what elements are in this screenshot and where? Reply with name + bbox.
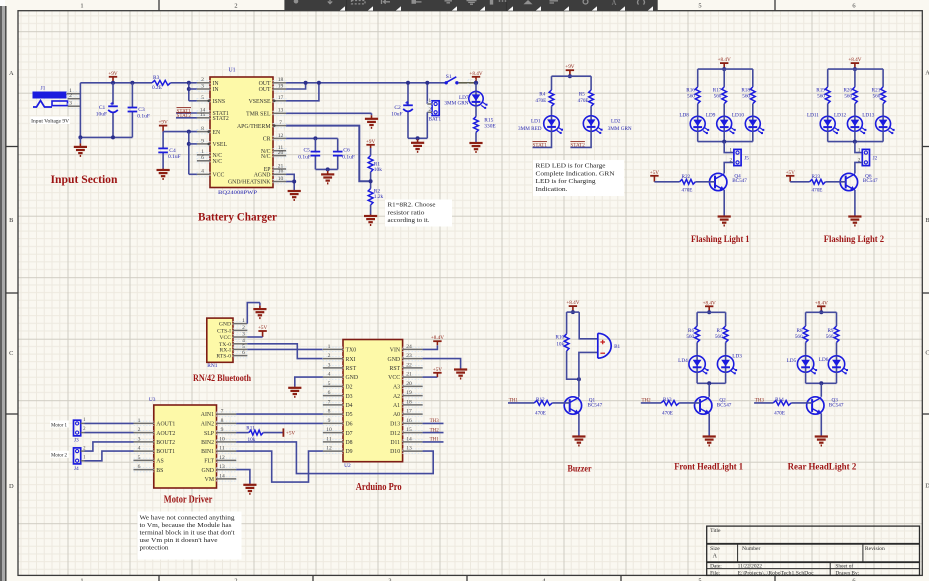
power +9V EN	[158, 120, 168, 132]
svg-text:+8.4V: +8.4V	[718, 57, 731, 63]
svg-text:R20: R20	[843, 87, 852, 93]
LED LD7	[469, 91, 488, 109]
svg-text:2: 2	[429, 107, 432, 113]
svg-text:AIN1: AIN1	[201, 412, 214, 418]
svg-text:+5V: +5V	[433, 367, 443, 373]
U1 pin 11 N/C	[273, 145, 286, 153]
wire LD3 bottom	[725, 372, 727, 383]
wire EN to VCC vertical	[188, 132, 190, 175]
node top Front HeadLight 1	[707, 310, 711, 314]
svg-text:R5: R5	[579, 92, 585, 98]
svg-text:D: D	[9, 483, 14, 490]
resistor R4	[549, 90, 554, 106]
svg-text:11/22/2022: 11/22/2022	[738, 564, 763, 570]
wire R20 to LD12	[854, 104, 856, 117]
svg-text:Arduino Pro: Arduino Pro	[356, 482, 402, 493]
U1 pin 6 N/C	[197, 155, 210, 163]
power +5V Flashing Light 2	[786, 170, 796, 182]
power +5V RN1	[258, 325, 268, 337]
wire LD6 bottom	[836, 372, 838, 383]
resistor R21	[881, 87, 886, 104]
svg-text:4: 4	[201, 169, 204, 175]
svg-text:8: 8	[201, 126, 204, 132]
svg-text:Flashing Light 2: Flashing Light 2	[824, 234, 885, 244]
ground C4	[157, 169, 170, 180]
svg-text:D9: D9	[346, 449, 353, 455]
svg-text:Battery Charger: Battery Charger	[198, 210, 278, 224]
wire TH3 to R14	[754, 402, 773, 404]
U3 pin 6 BS	[134, 464, 154, 472]
wire R12 to Q1 base	[552, 402, 570, 404]
RN1 pin 4 TX-0	[233, 338, 247, 346]
svg-text:+9V: +9V	[366, 139, 376, 145]
svg-text:RED LED is for Charge: RED LED is for Charge	[536, 163, 606, 170]
svg-text:C4: C4	[169, 148, 176, 154]
wire J3 pin2 to AOUT2	[81, 432, 85, 434]
ground RN1	[253, 303, 266, 319]
zone ticks left	[6, 146, 18, 148]
wire U2 GND23	[423, 359, 461, 369]
svg-text:VSENSE: VSENSE	[249, 99, 271, 105]
U1 pin 21 EP	[273, 163, 286, 171]
svg-text:560: 560	[742, 94, 750, 100]
svg-text:D6: D6	[346, 422, 353, 428]
U1 pin 7 APG/THERM	[273, 120, 286, 128]
svg-text:D10: D10	[390, 449, 400, 455]
svg-text:B1: B1	[614, 344, 620, 350]
power +9V R1	[366, 139, 376, 148]
resistor R14	[773, 401, 791, 406]
svg-text:3: 3	[328, 362, 331, 368]
U2 pin 13 D10	[403, 446, 423, 454]
svg-text:B: B	[9, 217, 13, 224]
LED LD4	[689, 356, 709, 375]
capacitor C6	[333, 152, 343, 156]
U1 pin 12 CR	[273, 133, 286, 141]
capacitor C3	[128, 108, 138, 112]
svg-text:D2: D2	[346, 385, 353, 391]
svg-text:ISNS: ISNS	[213, 99, 226, 105]
svg-text:10k: 10k	[374, 167, 382, 173]
node buzzer junction	[577, 377, 581, 381]
wire LED D7 top	[475, 83, 477, 91]
svg-text:BAT1: BAT1	[429, 117, 442, 123]
wire branch R16 top	[697, 69, 699, 87]
svg-text:R4: R4	[539, 92, 545, 98]
label Motor 1	[50, 421, 69, 428]
svg-text:21: 21	[406, 372, 412, 378]
svg-text:5: 5	[201, 95, 204, 101]
svg-text:+5V: +5V	[286, 431, 296, 437]
wire S1 to +8.4V	[459, 82, 476, 84]
wire J1 vertical	[79, 83, 81, 138]
svg-text:GND/HEATSINK: GND/HEATSINK	[228, 180, 271, 186]
svg-text:BOUT2: BOUT2	[156, 440, 175, 446]
svg-text:+5V: +5V	[786, 170, 796, 176]
svg-text:E:\Projects\..\RoboTech1.SchDo: E:\Projects\..\RoboTech1.SchDoc	[738, 571, 815, 577]
svg-text:0.1uF: 0.1uF	[168, 154, 181, 160]
node input rail C3	[130, 81, 134, 85]
wire C5 branch	[314, 138, 316, 151]
LED LD8	[690, 116, 709, 134]
U1 part number BQ24008PWP	[218, 190, 257, 196]
svg-text:U3: U3	[149, 397, 156, 403]
LED LD1	[544, 116, 563, 134]
svg-text:560: 560	[873, 94, 881, 100]
U1 pin 10 GND/HEATSINK	[273, 176, 286, 184]
U1 pin 5 ISNS	[197, 95, 210, 103]
RN1 pin 5 RX-I	[233, 344, 247, 352]
svg-text:3: 3	[69, 101, 72, 107]
LED LD3	[717, 356, 737, 375]
title Flashing Light 1	[691, 234, 750, 244]
wire top bar Front HeadLight 1	[697, 311, 726, 313]
U2 pin 6 D3	[323, 390, 343, 398]
svg-text:LD1: LD1	[531, 118, 541, 124]
wire LD12 bottom	[854, 131, 856, 141]
wire R19 to LD11	[827, 104, 829, 117]
U1 pin 4 VCC	[197, 169, 210, 177]
svg-text:LD4: LD4	[678, 358, 688, 364]
wire emitter Q4	[723, 190, 725, 216]
wire TH2 to R13	[641, 402, 661, 404]
U1 pin 3 IN	[197, 83, 210, 91]
wire C2 BAT1 bottom	[408, 137, 427, 139]
U3 pin 4 BOUT1	[134, 446, 154, 454]
power +8.4V U2	[431, 335, 444, 345]
svg-text:R16: R16	[686, 87, 695, 93]
svg-text:+8.4V: +8.4V	[703, 300, 716, 306]
op-amp U3 motor driver	[154, 405, 217, 488]
wire emitter Rear HeadLight 2	[820, 414, 822, 436]
svg-text:330E: 330E	[484, 123, 496, 129]
wire R5 to LD2	[590, 106, 592, 116]
svg-text:LD6: LD6	[819, 357, 829, 363]
power +8.4V Flashing Light 1	[718, 57, 731, 69]
svg-text:VIN: VIN	[390, 348, 401, 354]
svg-text:560: 560	[817, 94, 825, 100]
svg-text:R13: R13	[663, 397, 672, 403]
title Flashing Light 2	[824, 234, 885, 244]
svg-text:AGND: AGND	[254, 173, 271, 179]
wire RN1 RX-I to U2 TX0	[247, 348, 323, 350]
wire R17 to LD9	[723, 104, 725, 117]
svg-text:15: 15	[406, 427, 412, 433]
wire R4 to LD1	[551, 106, 553, 116]
svg-text:C: C	[9, 350, 13, 357]
wire R8 to LD5	[805, 342, 807, 355]
svg-text:470E: 470E	[774, 411, 785, 417]
J1 designator	[41, 86, 46, 92]
zone numbers bottom	[80, 577, 83, 581]
svg-text:2: 2	[328, 353, 331, 359]
svg-text:12: 12	[326, 446, 332, 452]
svg-text:LD9: LD9	[706, 113, 716, 119]
svg-text:9: 9	[201, 138, 204, 144]
svg-text:Drawn By:: Drawn By:	[835, 571, 859, 577]
svg-text:A1: A1	[393, 403, 400, 409]
power +5V R11	[283, 428, 295, 436]
svg-text:R17: R17	[713, 87, 722, 93]
wire RN1 VCC	[247, 336, 262, 338]
net label STAT1	[177, 108, 192, 115]
resistor R3	[152, 80, 171, 85]
wire BIN2 to D10	[236, 442, 433, 474]
svg-text:RX-I: RX-I	[220, 347, 232, 353]
svg-text:10: 10	[326, 427, 332, 433]
U2 pin 11 D8	[323, 436, 343, 444]
svg-text:U2: U2	[344, 463, 351, 469]
svg-text:Buzzer: Buzzer	[568, 465, 593, 475]
svg-text:19: 19	[406, 390, 412, 396]
svg-text:11: 11	[219, 446, 225, 452]
U1 pin 14 STAT1	[197, 107, 210, 115]
LED LD10	[745, 116, 764, 134]
U1 pin 18 OUT	[273, 77, 286, 85]
zone ticks right	[922, 146, 929, 148]
svg-text:470E: 470E	[535, 98, 546, 104]
zone letters right	[925, 70, 929, 77]
J3 designator	[74, 438, 79, 444]
svg-text:+8.4V: +8.4V	[469, 71, 482, 77]
wire RN1 TX-0 to U2 RXI	[247, 344, 323, 359]
connector J4	[74, 448, 81, 464]
resistor R1	[370, 148, 372, 156]
svg-text:R8: R8	[797, 328, 803, 334]
svg-text:Number: Number	[742, 546, 760, 552]
svg-text:IN: IN	[213, 87, 220, 93]
wire RN1 GND	[247, 303, 260, 324]
U2 pin 7 D4	[323, 399, 343, 407]
resistor R7	[723, 326, 728, 342]
svg-text:560: 560	[795, 334, 803, 340]
U3 pin 7 AIN1	[217, 409, 237, 417]
svg-text:3: 3	[242, 331, 245, 337]
U3 pin 14 VM	[217, 473, 237, 481]
wire LD7 to R15	[475, 106, 477, 117]
U2 pin 12 D9	[323, 446, 343, 454]
wire U3 GND	[236, 470, 250, 484]
svg-text:S1: S1	[446, 74, 452, 80]
wire VSENSE up	[286, 83, 319, 101]
U1 pin 9 VSEL	[197, 138, 210, 146]
svg-text:LD5: LD5	[787, 358, 797, 364]
svg-text:1: 1	[80, 577, 83, 581]
svg-text:RTS-0: RTS-0	[216, 354, 231, 360]
svg-text:AS: AS	[156, 459, 163, 465]
svg-text:470E: 470E	[682, 188, 693, 194]
node bottom Rear HeadLight 2	[819, 381, 823, 385]
svg-text:2: 2	[242, 325, 245, 331]
node bottom Front HeadLight 1	[707, 381, 711, 385]
wire C3 branch	[131, 83, 133, 108]
svg-text:560: 560	[714, 94, 722, 100]
svg-text:D13: D13	[390, 422, 400, 428]
svg-text:LD12: LD12	[834, 113, 847, 119]
power +8.4V Rear HeadLight 2	[815, 300, 828, 312]
title Arduino Pro	[356, 482, 402, 493]
svg-text:LD3: LD3	[732, 354, 742, 360]
wire LD11 bottom	[827, 131, 829, 141]
U3 pin 10 BIN2	[217, 436, 237, 444]
U2 pin 18 A1	[403, 399, 423, 407]
svg-text:470E: 470E	[535, 411, 546, 417]
resistor R19	[825, 87, 830, 104]
wire APG/THERM	[286, 126, 371, 182]
svg-text:RXI: RXI	[346, 357, 356, 363]
capacitor C2	[403, 101, 413, 111]
capacitor C5	[311, 152, 321, 156]
wire C5 C6 bottom	[315, 168, 337, 170]
svg-text:5: 5	[138, 455, 141, 461]
wire R21 to LD13	[882, 104, 884, 117]
svg-text:6: 6	[328, 390, 331, 396]
svg-text:BQ24008PWP: BQ24008PWP	[218, 190, 257, 196]
svg-text:+5V: +5V	[650, 170, 660, 176]
wire BAT1 bottom	[426, 112, 428, 138]
svg-text:470E: 470E	[812, 188, 823, 194]
LED LD6	[828, 356, 848, 375]
op-amp U2 Arduino Pro	[343, 340, 403, 462]
wire buzzer top bar	[567, 311, 580, 313]
svg-text:17: 17	[278, 95, 284, 101]
resistor R5	[589, 90, 594, 106]
svg-text:TX0: TX0	[346, 348, 357, 354]
svg-text:R6: R6	[688, 328, 694, 334]
svg-text:R12: R12	[536, 397, 545, 403]
svg-text:J1: J1	[41, 86, 46, 92]
wire R9 to LD6	[836, 342, 838, 355]
ground Q3	[815, 436, 828, 446]
wire buzzer to Q1	[578, 379, 580, 397]
svg-text:5: 5	[698, 3, 701, 10]
svg-text:TH1: TH1	[430, 438, 440, 443]
svg-text:BC547: BC547	[732, 178, 747, 184]
svg-text:+9V: +9V	[158, 120, 168, 126]
U1 pin 8 EN	[197, 126, 210, 134]
node bottom rail	[111, 135, 115, 139]
sheet outer border left	[5, 6, 7, 581]
svg-text:Flashing Light 1: Flashing Light 1	[691, 234, 750, 244]
svg-text:560: 560	[715, 334, 723, 340]
svg-text:VCC: VCC	[219, 335, 231, 341]
svg-text:RN1: RN1	[207, 363, 217, 369]
resistor R10	[564, 334, 569, 351]
svg-text:File:: File:	[710, 571, 720, 577]
wire OUT19 up	[286, 83, 306, 89]
wire LD1 branch top	[551, 76, 553, 90]
title RN/42 Bluetooth	[193, 373, 251, 383]
U2 pin 16 D13	[403, 418, 423, 426]
U1 pin 2 IN	[197, 77, 210, 85]
wire R11 to +5V	[263, 432, 283, 434]
wire J2 pin2 to Q6	[855, 162, 862, 173]
svg-text:470E: 470E	[578, 98, 589, 104]
node +8.4V	[468, 80, 480, 86]
svg-text:RST: RST	[389, 366, 400, 372]
U2 pin 17 A0	[403, 409, 423, 417]
svg-text:VSEL: VSEL	[213, 142, 228, 148]
wire LD5 bottom	[805, 372, 807, 383]
svg-text:resistor ratio: resistor ratio	[388, 210, 425, 216]
U2 pin 20 A3	[403, 381, 423, 389]
svg-text:LD2: LD2	[611, 118, 621, 124]
svg-text:2: 2	[234, 3, 237, 10]
wire R1 R2 junction	[370, 172, 372, 189]
wire BIN1 to D9	[236, 451, 323, 482]
toolbar strip	[284, 0, 657, 11]
U2 pin 8 D5	[323, 409, 343, 417]
svg-text:LD8: LD8	[679, 113, 689, 119]
svg-text:BOUT1: BOUT1	[156, 449, 175, 455]
U3 designator	[149, 397, 156, 403]
svg-text:R10: R10	[555, 334, 564, 340]
wire branch R18 top	[752, 69, 754, 87]
node bottom rail Flashing Light 2	[853, 140, 857, 144]
buzzer B1	[598, 333, 611, 358]
svg-text:7: 7	[328, 399, 331, 405]
svg-text:J4: J4	[74, 466, 79, 472]
svg-text:R21: R21	[872, 87, 881, 93]
wire LD8 bottom	[697, 131, 699, 141]
svg-text:470E: 470E	[662, 411, 673, 417]
LED LD13	[876, 116, 895, 134]
U2 pin 22 RST	[403, 362, 423, 370]
U1 pin 13 TMR SEL	[273, 108, 286, 116]
wire LD1 bottom	[533, 131, 552, 147]
svg-text:GND: GND	[388, 357, 401, 363]
resistor R17	[722, 87, 727, 104]
wire J5 pin2 to Q4	[724, 162, 734, 173]
svg-text:R9: R9	[827, 328, 833, 334]
svg-text:BS: BS	[156, 468, 163, 474]
resistor R20	[853, 87, 858, 104]
svg-text:10uF: 10uF	[96, 111, 107, 117]
svg-text:+9V: +9V	[565, 64, 575, 70]
wire R3 to U1	[171, 82, 197, 84]
svg-text:RN/42 Bluetooth: RN/42 Bluetooth	[193, 373, 251, 383]
wire emitter Front HeadLight 1	[708, 414, 710, 436]
RN1 designator	[207, 363, 217, 369]
svg-text:20: 20	[278, 150, 284, 156]
svg-text:14: 14	[406, 436, 412, 442]
svg-text:A0: A0	[393, 412, 400, 418]
U3 pin 9 SLP	[217, 427, 237, 435]
svg-text:3MM GRN: 3MM GRN	[608, 126, 632, 132]
svg-text:VM: VM	[205, 477, 214, 483]
svg-text:3: 3	[388, 577, 391, 581]
svg-text:CTS-I: CTS-I	[217, 328, 231, 334]
svg-text:C3: C3	[138, 107, 145, 113]
svg-text:10: 10	[219, 436, 225, 442]
wire input top rail	[80, 82, 152, 84]
svg-text:J2: J2	[873, 156, 878, 162]
connector J1	[33, 92, 68, 108]
wire top bar Rear HeadLight 2	[806, 311, 837, 313]
U1 pin 19 OUT	[273, 83, 286, 91]
svg-text:OUT: OUT	[259, 87, 271, 93]
wire U2 D13	[423, 422, 444, 424]
svg-text:9: 9	[221, 427, 224, 433]
wire AGND GND	[286, 174, 294, 190]
wire bottom rail Flashing Light 1	[698, 141, 753, 143]
svg-text:+8.4V: +8.4V	[815, 300, 828, 306]
power +5V Flashing Light 1	[650, 170, 660, 182]
wire R22 to base	[695, 181, 715, 183]
resistor R23	[810, 179, 826, 184]
svg-text:Input Voltage 9V: Input Voltage 9V	[31, 119, 69, 125]
svg-text:10: 10	[278, 176, 284, 182]
